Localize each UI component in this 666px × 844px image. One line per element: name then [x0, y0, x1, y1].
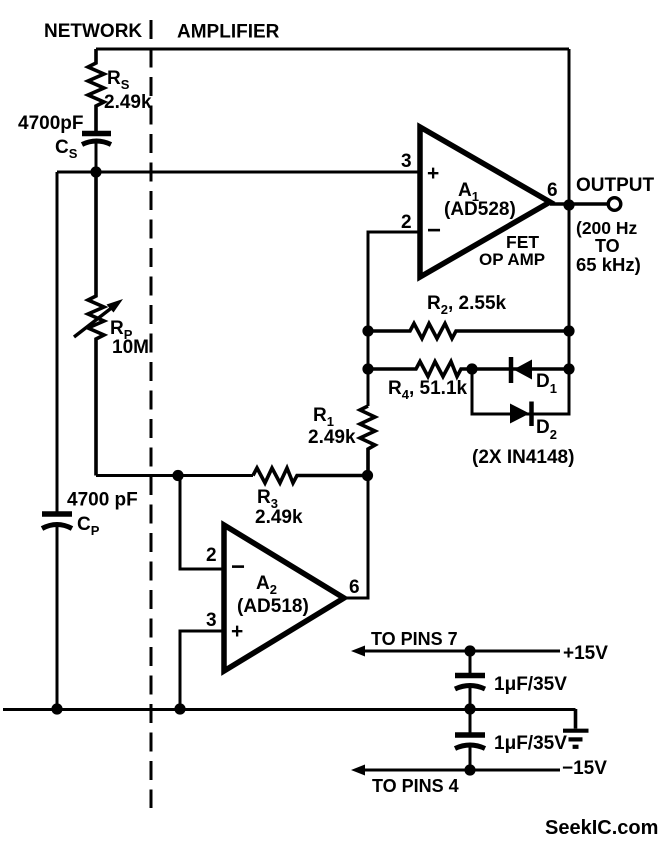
wire A2 pin3 — [180, 631, 224, 709]
node CP rail — [51, 703, 62, 714]
resistor R1 — [308, 405, 375, 476]
svg-text:TO PINS 4: TO PINS 4 — [372, 776, 459, 796]
node R2 left — [362, 325, 373, 336]
op-amp A2 — [206, 525, 360, 671]
wire A1 pin2 — [368, 232, 420, 406]
wire pin3 horizontal to A1 — [57, 171, 420, 174]
wire -15V rail with arrow — [351, 758, 607, 796]
svg-text:2: 2 — [401, 212, 412, 233]
node R3 right junction — [362, 470, 373, 481]
diode D1 — [511, 357, 557, 396]
label OUTPUT — [576, 175, 655, 275]
svg-text:6: 6 — [349, 577, 360, 598]
svg-text:1μF/35V: 1μF/35V — [494, 674, 567, 695]
svg-text:OUTPUT: OUTPUT — [576, 175, 655, 196]
resistor RS — [88, 49, 152, 131]
svg-text:TO PINS 7: TO PINS 7 — [371, 629, 458, 649]
svg-text:10M: 10M — [112, 337, 149, 358]
capacitor CS — [18, 113, 111, 172]
resistor R2 — [368, 293, 569, 339]
svg-text:4700pF: 4700pF — [18, 113, 83, 134]
svg-text:2.49k: 2.49k — [308, 427, 356, 448]
resistor RP variable — [74, 172, 149, 476]
wire ground rail — [3, 708, 576, 711]
svg-text:TO: TO — [595, 236, 620, 256]
svg-text:4700 pF: 4700 pF — [67, 490, 138, 511]
svg-text:3: 3 — [401, 151, 412, 172]
svg-text:SeekIC.com: SeekIC.com — [545, 817, 658, 839]
wire output — [550, 202, 607, 205]
svg-text:OP AMP: OP AMP — [479, 250, 545, 269]
svg-text:65 kHz): 65 kHz) — [576, 254, 641, 275]
svg-text:−: − — [427, 217, 441, 244]
node +15 cap — [464, 645, 475, 656]
node R2 right — [563, 325, 574, 336]
node R3 left junction — [172, 470, 183, 481]
dashed boundary line — [150, 20, 153, 808]
svg-text:(2X IN4148): (2X IN4148) — [472, 447, 574, 468]
svg-text:6: 6 — [547, 180, 558, 201]
svg-text:3: 3 — [206, 610, 217, 631]
resistor R3 — [253, 468, 368, 528]
wire A2 pin2 — [180, 476, 224, 570]
svg-text:1μF/35V: 1μF/35V — [494, 733, 567, 754]
svg-text:NETWORK: NETWORK — [44, 21, 142, 42]
node caps rail — [464, 703, 475, 714]
svg-text:AMPLIFIER: AMPLIFIER — [177, 22, 280, 43]
wire left vertical upper — [56, 172, 59, 512]
ground — [563, 709, 589, 747]
wire A2 output — [344, 476, 368, 599]
svg-text:(AD528): (AD528) — [444, 199, 516, 220]
capacitor C3 — [455, 651, 567, 709]
node R4 left — [362, 363, 373, 374]
output node — [563, 199, 574, 210]
capacitor CP — [42, 490, 138, 710]
svg-text:(AD518): (AD518) — [237, 596, 309, 617]
wire +15V rail with arrow — [351, 629, 608, 664]
svg-text:(200 Hz: (200 Hz — [576, 218, 638, 238]
svg-text:2.49k: 2.49k — [104, 92, 152, 113]
output terminal circle — [608, 198, 621, 211]
diode D2 — [510, 402, 557, 443]
node at CS output — [90, 166, 101, 177]
wire top horizontal — [96, 48, 569, 51]
svg-text:−: − — [231, 554, 245, 581]
diode D2 branch wire — [472, 369, 569, 414]
node -15 cap — [464, 764, 475, 775]
svg-text:R2, 2.55k: R2, 2.55k — [427, 293, 507, 317]
capacitor C4 — [455, 709, 567, 770]
node A2 pin3 rail — [174, 703, 185, 714]
node R4 mid — [466, 363, 477, 374]
wire bottom-left horizontal with R3 — [96, 474, 253, 477]
svg-text:+: + — [427, 162, 439, 185]
resistor R4 — [368, 362, 569, 403]
svg-text:2: 2 — [206, 545, 217, 566]
wire right vertical — [568, 49, 571, 414]
svg-text:FET: FET — [506, 232, 539, 252]
svg-text:+: + — [231, 620, 243, 643]
svg-text:−15V: −15V — [562, 758, 607, 779]
node R4 right — [563, 363, 574, 374]
svg-text:+15V: +15V — [563, 643, 608, 664]
svg-text:2.49k: 2.49k — [255, 507, 303, 528]
svg-text:R4, 51.1k: R4, 51.1k — [388, 378, 468, 402]
op-amp A1 — [401, 127, 558, 277]
